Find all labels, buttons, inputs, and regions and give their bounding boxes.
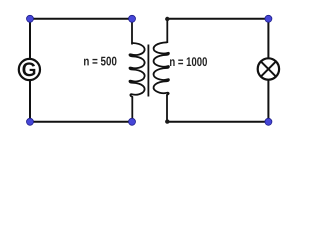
node: left loop top-right xyxy=(129,15,136,22)
coil: secondary winding n=1000 xyxy=(154,42,169,95)
wire: secondary bottom lead xyxy=(166,95,168,122)
wire: primary top lead xyxy=(131,19,133,45)
label n = 500 xyxy=(84,57,117,66)
wire: left loop left side xyxy=(29,19,31,122)
wire: right loop bottom xyxy=(167,121,268,123)
wire: primary bottom lead xyxy=(131,97,133,122)
node: left loop bottom-right xyxy=(129,118,136,125)
wire: right loop right side xyxy=(267,19,269,122)
node: left loop top-left xyxy=(27,15,34,22)
generator G (AC source) xyxy=(19,59,40,80)
coil: primary winding n=500 xyxy=(129,43,144,97)
wire: left loop bottom xyxy=(30,121,132,123)
transformer core xyxy=(147,45,149,97)
label n = 1000 xyxy=(170,57,207,66)
node: right loop bottom-right xyxy=(265,118,272,125)
wire: secondary top lead xyxy=(166,19,168,43)
junction: secondary top xyxy=(165,17,169,21)
wire: right loop top xyxy=(167,18,268,20)
lamp X xyxy=(258,58,279,79)
node: left loop bottom-left xyxy=(27,118,34,125)
node: right loop top-right xyxy=(265,15,272,22)
junction: secondary bottom xyxy=(165,119,169,123)
wire: left loop top xyxy=(30,18,132,20)
